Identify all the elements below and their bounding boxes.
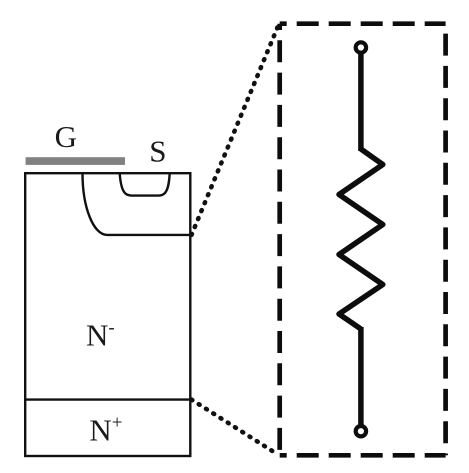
gate electrode G (gray bar): [26, 157, 125, 165]
resistor zigzag body: [339, 149, 383, 329]
dashed zoom box top edge: [280, 21, 446, 26]
svg-text:S: S: [149, 133, 166, 168]
P-well boundary: [83, 173, 192, 235]
svg-text:G: G: [55, 119, 77, 154]
zoom callout dotted line bottom: [192, 400, 279, 455]
zoom callout dotted line top: [192, 25, 279, 235]
dashed zoom box right edge: [443, 24, 448, 456]
resistor top terminal (circle): [356, 42, 366, 52]
svg-text:N-: N-: [86, 317, 115, 352]
device body outline: [25, 173, 190, 456]
wire from top terminal to resistor: [358, 53, 364, 152]
dashed zoom box bottom edge: [280, 453, 446, 458]
source region bowl: [120, 173, 170, 195]
wire from resistor to bottom terminal: [358, 327, 364, 426]
svg-text:N+: N+: [89, 413, 122, 448]
resistor bottom terminal (circle): [356, 426, 366, 436]
N+ substrate divider line: [24, 398, 192, 400]
dashed zoom box left edge: [277, 24, 282, 456]
